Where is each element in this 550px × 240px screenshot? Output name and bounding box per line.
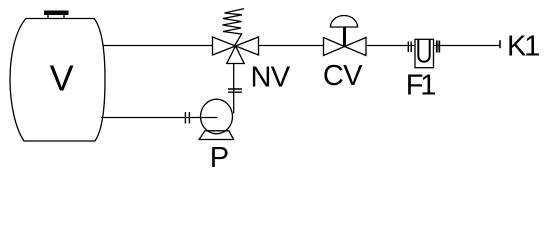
flowmeter F1 U-tube xyxy=(418,40,429,62)
wire CV to F1 xyxy=(366,45,415,47)
wire NV down to pump xyxy=(233,64,235,114)
svg-text:F1: F1 xyxy=(406,70,436,102)
valve CV xyxy=(324,38,367,56)
flange right of F1 xyxy=(437,41,440,53)
svg-text:K1: K1 xyxy=(507,30,539,62)
pump P circle xyxy=(201,99,233,134)
flange on NV-pump line xyxy=(228,89,242,92)
connector K1 tick xyxy=(499,40,501,48)
wire vessel to NV xyxy=(103,45,213,47)
wire NV to CV xyxy=(259,45,324,47)
actuator stem of CV xyxy=(343,27,346,47)
flange on vessel-pump line xyxy=(185,112,189,124)
flange left of F1 xyxy=(408,42,411,53)
svg-text:NV: NV xyxy=(251,61,291,93)
vessel nozzle legs xyxy=(48,15,64,19)
wire F1 to K1 xyxy=(434,45,501,47)
svg-text:V: V xyxy=(50,58,74,99)
pump P base xyxy=(199,131,234,140)
svg-text:CV: CV xyxy=(323,60,363,92)
flowmeter F1 box xyxy=(415,39,434,67)
spring of NV xyxy=(223,9,245,46)
actuator dome of CV xyxy=(331,16,358,27)
svg-text:P: P xyxy=(210,142,229,174)
wire vessel to pump xyxy=(101,117,218,119)
valve NV xyxy=(213,37,259,64)
vessel V xyxy=(10,19,105,142)
vessel top flange bar xyxy=(44,11,69,16)
